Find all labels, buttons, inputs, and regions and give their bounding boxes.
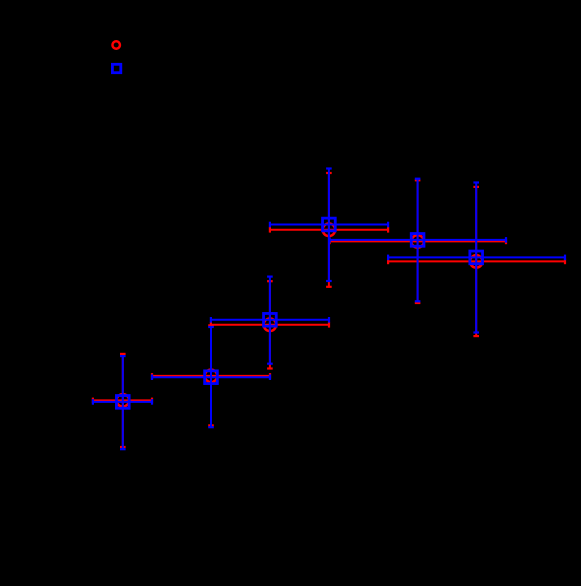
P5 red horizontal error bar right cap — [505, 239, 507, 245]
P6 blue horizontal error bar left cap — [387, 255, 389, 261]
P2 red circle marker — [205, 370, 218, 383]
P2 red horizontal error bar right cap — [269, 373, 271, 379]
P5 red vertical error bar bottom cap — [415, 302, 421, 304]
P5 blue vertical error bar bottom cap — [415, 300, 421, 302]
P1 red vertical error bar bottom cap — [120, 446, 126, 448]
P6 blue vertical error bar top cap — [473, 181, 479, 183]
P2 red vertical error bar bottom cap — [208, 424, 214, 426]
P6 blue square marker — [470, 251, 483, 264]
P4 blue horizontal error bar right cap — [387, 222, 389, 228]
P4 blue vertical error bar bottom cap — [326, 280, 332, 282]
P2 blue horizontal error bar — [152, 376, 270, 378]
P2 blue horizontal error bar right cap — [269, 374, 271, 380]
P1 blue horizontal error bar right cap — [151, 399, 153, 405]
P6 red circle marker — [470, 255, 483, 268]
P3 red horizontal error bar — [211, 324, 329, 326]
P5 red vertical error bar top cap — [415, 179, 421, 181]
P4 blue horizontal error bar left cap — [269, 222, 271, 228]
P1 blue vertical error bar — [122, 356, 124, 449]
P5 blue vertical error bar — [417, 179, 419, 302]
P6 red vertical error bar top cap — [473, 186, 479, 188]
legend red circle marker — [112, 41, 120, 49]
P3 blue horizontal error bar right cap — [328, 317, 330, 323]
P5 red circle marker — [411, 235, 424, 248]
P3 blue horizontal error bar — [211, 319, 329, 321]
P5 red horizontal error bar — [330, 240, 506, 242]
P1 red horizontal error bar — [93, 399, 152, 401]
P3 blue square marker — [264, 313, 277, 326]
P3 blue vertical error bar top cap — [267, 276, 273, 278]
legend blue square marker — [112, 64, 120, 72]
P6 red horizontal error bar left cap — [387, 259, 389, 265]
P2 red horizontal error bar left cap — [151, 373, 153, 379]
P3 red horizontal error bar left cap — [210, 322, 212, 328]
P2 blue horizontal error bar left cap — [151, 374, 153, 380]
P3 red circle marker — [264, 319, 277, 332]
P2 blue vertical error bar — [210, 327, 212, 427]
P6 red vertical error bar bottom cap — [473, 335, 479, 337]
P6 blue horizontal error bar — [388, 256, 565, 258]
P5 blue vertical error bar top cap — [415, 178, 421, 180]
P4 red horizontal error bar right cap — [387, 227, 389, 233]
P1 blue horizontal error bar — [93, 401, 152, 403]
P5 blue square marker — [411, 234, 424, 247]
P1 red horizontal error bar left cap — [92, 398, 94, 404]
P1 blue horizontal error bar left cap — [92, 399, 94, 405]
P3 red vertical error bar — [269, 281, 271, 368]
P1 blue square marker — [116, 396, 129, 409]
P3 blue vertical error bar bottom cap — [267, 363, 273, 365]
P1 red horizontal error bar right cap — [151, 398, 153, 404]
P1 red vertical error bar top cap — [120, 353, 126, 355]
P4 red vertical error bar top cap — [326, 172, 332, 174]
P4 red horizontal error bar left cap — [269, 227, 271, 233]
P3 blue horizontal error bar left cap — [210, 317, 212, 323]
P1 blue vertical error bar top cap — [120, 355, 126, 357]
P4 red horizontal error bar — [270, 229, 388, 231]
P3 red vertical error bar top cap — [267, 280, 273, 282]
P4 blue square marker — [323, 218, 336, 231]
P2 red vertical error bar — [210, 325, 212, 425]
P4 blue horizontal error bar — [270, 224, 388, 226]
P6 blue horizontal error bar right cap — [564, 255, 566, 261]
P4 blue vertical error bar — [328, 169, 330, 282]
P4 red vertical error bar — [328, 173, 330, 287]
P5 blue horizontal error bar right cap — [505, 237, 507, 243]
P4 red vertical error bar bottom cap — [326, 286, 332, 288]
P2 red vertical error bar top cap — [208, 324, 214, 326]
P4 blue vertical error bar top cap — [326, 167, 332, 169]
P1 red circle marker — [117, 394, 130, 407]
P2 blue vertical error bar top cap — [208, 326, 214, 328]
P3 blue vertical error bar — [269, 277, 271, 364]
P6 red horizontal error bar — [388, 260, 565, 262]
P5 blue horizontal error bar left cap — [329, 237, 331, 243]
P2 blue vertical error bar bottom cap — [208, 426, 214, 428]
P1 red vertical error bar — [122, 354, 124, 447]
P6 blue vertical error bar bottom cap — [473, 331, 479, 333]
P2 red horizontal error bar — [152, 375, 270, 377]
P6 red horizontal error bar right cap — [564, 259, 566, 265]
P6 red vertical error bar — [475, 187, 477, 336]
P5 red horizontal error bar left cap — [329, 239, 331, 245]
P3 red vertical error bar bottom cap — [267, 367, 273, 369]
P1 blue vertical error bar bottom cap — [120, 448, 126, 450]
P4 red circle marker — [323, 224, 336, 237]
P3 red horizontal error bar right cap — [328, 322, 330, 328]
P6 blue vertical error bar — [475, 183, 477, 333]
P2 blue square marker — [205, 371, 218, 384]
P5 blue horizontal error bar — [330, 239, 506, 241]
P5 red vertical error bar — [417, 180, 419, 303]
